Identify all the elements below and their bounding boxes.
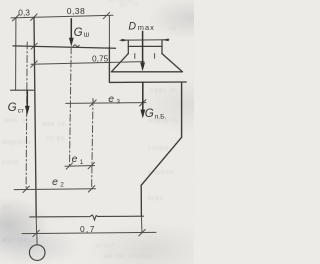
force arrow Dmax shaft [142,31,144,63]
force arrow Gsh head [69,38,74,47]
rail web mark right [154,54,156,59]
column left edge [34,17,36,216]
tick 0,7 left [33,230,39,236]
Dmax dimension line [120,39,169,41]
body right edge [181,82,183,137]
rail web mark left [134,54,136,59]
tick 0,7 right [139,230,145,236]
rail foot right slant [162,54,182,72]
tick e2 right [88,186,94,192]
dimension line e1 [65,165,95,168]
dimension line e3 [66,102,146,105]
dimension line 0,7 [22,232,156,233]
force arrow Gst head [25,106,30,115]
dimension line 0,75 [31,62,144,65]
dimension line 0,3 / 0,38 (top chained dimension line) [11,15,113,18]
wall strip bottom line [11,89,34,91]
tick at top line / column edge crossing [31,43,37,49]
extension line left (wall outer edge) [15,18,17,91]
reference bubble stem [36,234,38,245]
Dmax left arrowhead [122,39,129,42]
tick e2 left [23,186,29,192]
extension line above column right edge [108,16,110,47]
tick at left end of 0,3 [13,15,19,21]
body lower right edge [140,185,142,216]
reference bubble circle [29,245,45,261]
axis of wall strip (dash-dot) [26,42,27,189]
tick e1 right [88,162,94,168]
axis of upper column (dash-dot) [70,47,72,166]
force arrow Gst shaft [26,91,28,108]
dimension line e2 [14,188,96,191]
column top line [13,46,116,48]
tick 0,75 left [31,61,37,67]
force arrow Gsh shaft [70,19,72,40]
tick e3 left [90,100,96,106]
scan noise overlay [0,0,1,1]
tick between 0,3 and 0,38 [31,14,37,20]
rail head right edge [161,40,163,54]
tick e1 left [66,163,72,169]
crane rail head top line [128,45,162,47]
tick e3 right [140,100,146,106]
rail foot base line [111,71,182,73]
force arrow GpB head [140,110,145,119]
upper column right edge [108,47,110,82]
break squiggle at Gsh arrow tip [73,45,79,47]
axis of lower column (dash-dot) [92,99,93,189]
Dmax right arrowhead [162,39,169,42]
tick at right end of 0,38 [103,12,109,18]
rail head left edge [127,40,129,54]
body diagonal cut edge [141,137,181,185]
rail foot left slant [111,54,128,72]
force arrow GpB shaft [142,82,144,111]
lower body top edge [110,81,187,83]
extension bottom left [35,217,37,234]
force arrow Dmax head [140,63,145,72]
bottom cut line with break squiggle [30,215,144,220]
bleed-through ghost text noise [120,2,139,9]
extension bottom right [140,216,143,233]
